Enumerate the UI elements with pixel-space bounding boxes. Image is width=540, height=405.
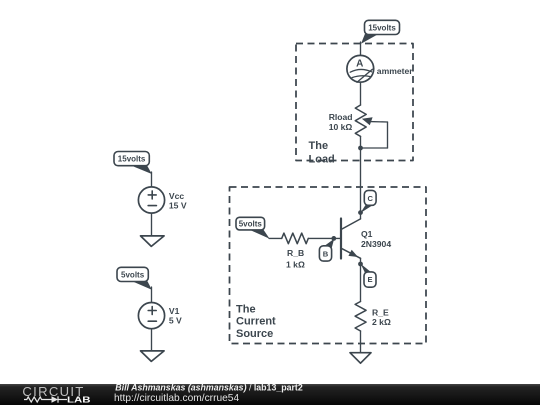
svg-text:2N3904: 2N3904 [361,239,391,249]
svg-text:E: E [367,275,372,284]
svg-text:2 kΩ: 2 kΩ [372,317,391,327]
svg-text:R_B: R_B [287,248,304,258]
svg-text:5 V: 5 V [169,315,182,325]
svg-text:15 V: 15 V [169,200,187,210]
svg-text:http://circuitlab.com/crrue54: http://circuitlab.com/crrue54 [114,393,239,404]
svg-text:Q1: Q1 [361,229,373,239]
svg-text:C: C [367,194,373,203]
svg-text:5volts: 5volts [121,270,145,279]
svg-text:R_E: R_E [372,308,389,318]
svg-text:LAB: LAB [67,396,91,405]
svg-text:The: The [309,140,329,152]
svg-text:Load: Load [309,154,335,166]
svg-text:A: A [356,58,363,69]
svg-text:ammeter: ammeter [377,66,413,76]
svg-text:B: B [323,249,329,258]
svg-text:The: The [236,304,256,316]
svg-text:Current: Current [236,316,276,328]
svg-text:1 kΩ: 1 kΩ [286,260,305,270]
svg-text:Bill Ashmanskas (ashmanskas) /: Bill Ashmanskas (ashmanskas) / lab13_par… [115,382,303,392]
svg-text:10 kΩ: 10 kΩ [329,122,353,132]
svg-text:Rload: Rload [329,112,353,122]
svg-text:15volts: 15volts [368,23,396,32]
svg-text:Source: Source [236,328,273,340]
svg-text:15volts: 15volts [118,155,146,164]
svg-text:5volts: 5volts [239,220,263,229]
